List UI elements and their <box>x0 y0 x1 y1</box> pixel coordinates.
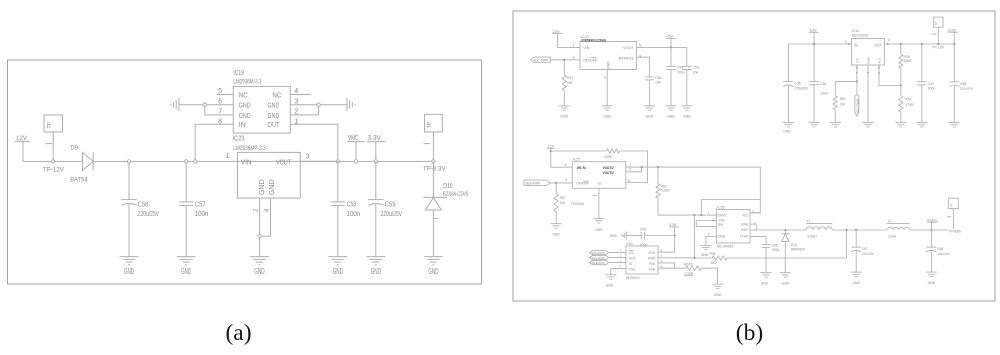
svg-text:TP-3.3V: TP-3.3V <box>423 166 446 173</box>
svg-text:VIN: VIN <box>241 159 252 166</box>
svg-text:GND: GND <box>866 56 870 64</box>
svg-text:100n: 100n <box>677 70 685 74</box>
svg-text:TCAP: TCAP <box>740 235 749 239</box>
svg-text:3: 3 <box>866 72 870 74</box>
svg-text:100n: 100n <box>820 91 828 95</box>
svg-text:DRVC: DRVC <box>718 213 728 217</box>
svg-text:1: 1 <box>226 153 230 160</box>
svg-text:2: 2 <box>603 77 607 79</box>
svg-text:4: 4 <box>294 88 298 95</box>
svg-text:C55: C55 <box>655 76 661 80</box>
svg-text:TP: TP <box>934 22 938 26</box>
svg-text:22uH: 22uH <box>888 235 896 239</box>
svg-text:10u: 10u <box>693 70 699 74</box>
svg-text:P0W: P0W <box>648 256 655 260</box>
svg-text:1: 1 <box>708 211 710 215</box>
svg-text:1M: 1M <box>840 103 845 107</box>
svg-text:BAT54: BAT54 <box>70 176 88 183</box>
svg-text:470p: 470p <box>772 248 780 252</box>
svg-text:1: 1 <box>294 118 298 125</box>
svg-text:ADC-PWR: ADC-PWR <box>533 58 548 62</box>
svg-text:ACC-PWM: ACC-PWM <box>855 98 859 114</box>
svg-text:1: 1 <box>619 248 621 252</box>
svg-text:GND: GND <box>761 282 769 286</box>
svg-text:D9: D9 <box>71 144 79 151</box>
svg-text:IPK: IPK <box>718 223 724 227</box>
svg-text:2: 2 <box>253 208 259 212</box>
svg-text:VIN, R1: VIN, R1 <box>577 166 586 170</box>
svg-text:R100: R100 <box>684 262 692 266</box>
svg-text:5: 5 <box>639 44 641 48</box>
svg-text:GND: GND <box>783 129 791 133</box>
svg-text:SCL/SCK: SCL/SCK <box>592 256 605 260</box>
svg-text:1W: 1W <box>567 81 573 85</box>
svg-text:VOUT: VOUT <box>623 46 634 50</box>
svg-text:GND: GND <box>595 228 603 232</box>
svg-text:SEN-PWR: SEN-PWR <box>526 182 541 186</box>
svg-text:VOUT/2: VOUT/2 <box>603 166 614 170</box>
svg-text:+5V: +5V <box>666 34 674 39</box>
svg-text:C58: C58 <box>347 201 357 208</box>
svg-text:GND: GND <box>852 281 860 285</box>
svg-text:VSS: VSS <box>629 267 635 271</box>
svg-text:220u/25V: 220u/25V <box>794 87 809 91</box>
svg-text:C57: C57 <box>195 201 206 208</box>
svg-text:3.3V: 3.3V <box>368 135 381 142</box>
svg-text:D10: D10 <box>443 183 452 190</box>
svg-text:TP: TP <box>427 121 433 128</box>
svg-text:2: 2 <box>629 168 631 172</box>
svg-text:GND: GND <box>646 115 654 119</box>
svg-text:4: 4 <box>708 232 710 236</box>
svg-text:IN: IN <box>239 122 246 129</box>
svg-text:3: 3 <box>294 98 298 105</box>
svg-text:BZX84-C5V6: BZX84-C5V6 <box>443 191 468 198</box>
svg-text:GND: GND <box>254 267 264 276</box>
svg-text:C53: C53 <box>693 66 699 70</box>
svg-text:3.6V: 3.6V <box>948 28 956 32</box>
svg-text:VMC: VMC <box>348 135 359 142</box>
svg-text:GND: GND <box>701 253 709 257</box>
svg-text:100n: 100n <box>928 87 936 91</box>
svg-text:2: 2 <box>294 109 298 116</box>
svg-text:FDS306: FDS306 <box>571 202 583 206</box>
svg-text:GND: GND <box>782 282 790 286</box>
svg-text:2: 2 <box>844 40 846 44</box>
svg-text:C67: C67 <box>862 247 868 251</box>
svg-text:R67: R67 <box>560 196 566 200</box>
svg-text:12V: 12V <box>553 29 560 34</box>
svg-text:GND: GND <box>610 234 618 238</box>
svg-text:S2: S2 <box>597 182 601 186</box>
svg-text:5: 5 <box>218 88 222 95</box>
svg-text:7: 7 <box>218 109 222 116</box>
svg-text:R99: R99 <box>710 252 716 256</box>
svg-text:L2: L2 <box>888 219 892 223</box>
svg-text:P0A: P0A <box>649 262 656 266</box>
svg-text:47u/10V: 47u/10V <box>862 252 875 256</box>
svg-text:1: 1 <box>572 44 574 48</box>
svg-text:C37: C37 <box>928 82 934 86</box>
svg-text:220u/10V: 220u/10V <box>937 252 950 256</box>
svg-text:R51: R51 <box>840 97 846 101</box>
svg-text:C30: C30 <box>626 242 633 246</box>
svg-text:NC: NC <box>273 92 282 99</box>
svg-text:6: 6 <box>218 98 222 105</box>
svg-text:TP: TP <box>47 121 53 128</box>
svg-text:IC28: IC28 <box>717 206 725 210</box>
svg-text:IC27: IC27 <box>573 158 581 162</box>
svg-text:L1: L1 <box>807 219 811 223</box>
svg-text:LP2985AIM-5.0 (150mA): LP2985AIM-5.0 (150mA) <box>581 38 607 42</box>
svg-text:GND: GND <box>607 61 611 69</box>
svg-text:6: 6 <box>628 179 630 183</box>
svg-text:C36: C36 <box>820 82 826 86</box>
svg-text:BYPASS: BYPASS <box>619 56 634 60</box>
svg-text:C65: C65 <box>640 227 646 231</box>
svg-text:4: 4 <box>639 54 641 58</box>
svg-text:IN: IN <box>854 43 858 47</box>
svg-text:GND: GND <box>371 267 381 276</box>
svg-text:220u/25V: 220u/25V <box>960 87 974 91</box>
svg-text:GND: GND <box>428 267 438 276</box>
svg-text:MBR0520: MBR0520 <box>791 247 805 251</box>
svg-text:GND: GND <box>928 281 936 285</box>
svg-text:C59: C59 <box>385 201 396 208</box>
svg-text:GND: GND <box>667 115 675 119</box>
svg-text:CS-POT: CS-POT <box>592 251 605 255</box>
svg-text:330R: 330R <box>904 59 913 63</box>
svg-text:C66: C66 <box>772 243 778 247</box>
svg-text:100n: 100n <box>195 211 209 218</box>
svg-text:IC11: IC11 <box>852 29 860 33</box>
svg-text:4: 4 <box>564 163 566 167</box>
svg-text:2.00R: 2.00R <box>684 272 694 276</box>
svg-text:SWE: SWE <box>741 222 748 226</box>
svg-text:220u/25V: 220u/25V <box>138 211 160 218</box>
svg-text:OUT: OUT <box>874 43 882 47</box>
svg-text:GND: GND <box>603 115 611 119</box>
svg-text:C38: C38 <box>960 82 966 86</box>
svg-text:5: 5 <box>565 178 567 182</box>
svg-text:VOUT/2: VOUT/2 <box>603 171 614 175</box>
svg-text:2: 2 <box>619 254 621 258</box>
svg-text:GND: GND <box>259 180 266 196</box>
svg-text:174R: 174R <box>905 103 914 107</box>
svg-text:R17: R17 <box>567 76 573 80</box>
svg-text:12V: 12V <box>810 28 817 33</box>
svg-text:GND: GND <box>561 115 569 119</box>
svg-text:TP-3.6V: TP-3.6V <box>932 46 945 50</box>
svg-text:12V: 12V <box>547 144 555 148</box>
svg-text:VCC: VCC <box>742 213 749 217</box>
svg-text:GND: GND <box>239 103 251 110</box>
svg-text:C52: C52 <box>677 66 683 70</box>
svg-text:3.3V: 3.3V <box>669 223 677 227</box>
svg-text:OUT: OUT <box>268 122 280 129</box>
svg-text:MCP4010: MCP4010 <box>626 276 640 280</box>
svg-text:3: 3 <box>572 56 574 60</box>
svg-text:GND: GND <box>268 113 280 120</box>
svg-text:6K2: 6K2 <box>711 261 717 265</box>
svg-text:MIC29302: MIC29302 <box>852 34 868 38</box>
svg-text:100n: 100n <box>347 211 361 218</box>
svg-text:GND: GND <box>552 233 560 237</box>
svg-text:IC23: IC23 <box>233 136 245 143</box>
svg-text:IC19: IC19 <box>233 70 244 77</box>
svg-text:LM2936MP-3.3: LM2936MP-3.3 <box>233 145 266 152</box>
svg-text:R52: R52 <box>905 97 911 101</box>
svg-text:TP-VGEN: TP-VGEN <box>948 230 961 234</box>
svg-text:0.25R: 0.25R <box>661 189 671 193</box>
svg-text:220u/25V: 220u/25V <box>381 211 403 218</box>
svg-text:GND: GND <box>239 113 251 120</box>
svg-text:1: 1 <box>629 163 631 167</box>
svg-text:8: 8 <box>218 118 222 125</box>
svg-text:ADJ: ADJ <box>877 57 881 63</box>
svg-text:VDD: VDD <box>648 251 655 255</box>
svg-text:1W: 1W <box>560 201 566 205</box>
svg-text:220uH: 220uH <box>807 235 817 239</box>
svg-text:100K: 100K <box>604 155 613 159</box>
svg-text:5: 5 <box>877 72 881 74</box>
svg-text:SDO: SDO <box>592 261 606 265</box>
svg-text:GND: GND <box>683 115 691 119</box>
svg-text:GND: GND <box>181 267 191 276</box>
svg-text:SWC: SWC <box>741 228 749 232</box>
svg-text:VGEN: VGEN <box>927 218 937 222</box>
svg-text:LM2936M-3.3: LM2936M-3.3 <box>233 78 261 85</box>
svg-text:TP-12V: TP-12V <box>43 167 64 174</box>
svg-text:100n: 100n <box>640 243 648 247</box>
svg-text:10n: 10n <box>655 81 661 85</box>
svg-text:-VIN: -VIN <box>718 218 725 222</box>
svg-text:SI: SI <box>629 262 632 266</box>
svg-text:12V: 12V <box>16 135 27 142</box>
svg-text:C68: C68 <box>937 247 943 251</box>
svg-text:CS: CS <box>629 251 633 255</box>
svg-text:C56: C56 <box>138 201 148 208</box>
svg-text:ON/OFF: ON/OFF <box>583 58 598 62</box>
svg-text:GND: GND <box>714 293 722 297</box>
svg-text:1: 1 <box>855 72 859 74</box>
svg-text:GND: GND <box>268 103 280 110</box>
svg-text:GND: GND <box>333 267 343 276</box>
svg-text:SCK: SCK <box>629 256 636 260</box>
svg-text:MC34063: MC34063 <box>717 244 733 248</box>
svg-text:4: 4 <box>888 38 890 42</box>
svg-text:GND: GND <box>606 284 614 288</box>
svg-text:VOUT: VOUT <box>276 159 292 166</box>
svg-text:NC: NC <box>239 92 248 99</box>
svg-text:GND: GND <box>718 235 726 239</box>
svg-text:P0B: P0B <box>649 267 655 271</box>
svg-text:GND: GND <box>124 267 134 276</box>
svg-text:EN: EN <box>855 58 859 62</box>
svg-text:C35: C35 <box>794 82 800 86</box>
svg-text:TP: TP <box>950 203 954 207</box>
svg-text:4: 4 <box>264 208 270 212</box>
svg-text:VIN: VIN <box>583 46 590 50</box>
svg-text:3: 3 <box>306 154 310 161</box>
svg-text:ON/OFF: ON/OFF <box>577 182 590 186</box>
svg-text:GND: GND <box>269 180 276 196</box>
